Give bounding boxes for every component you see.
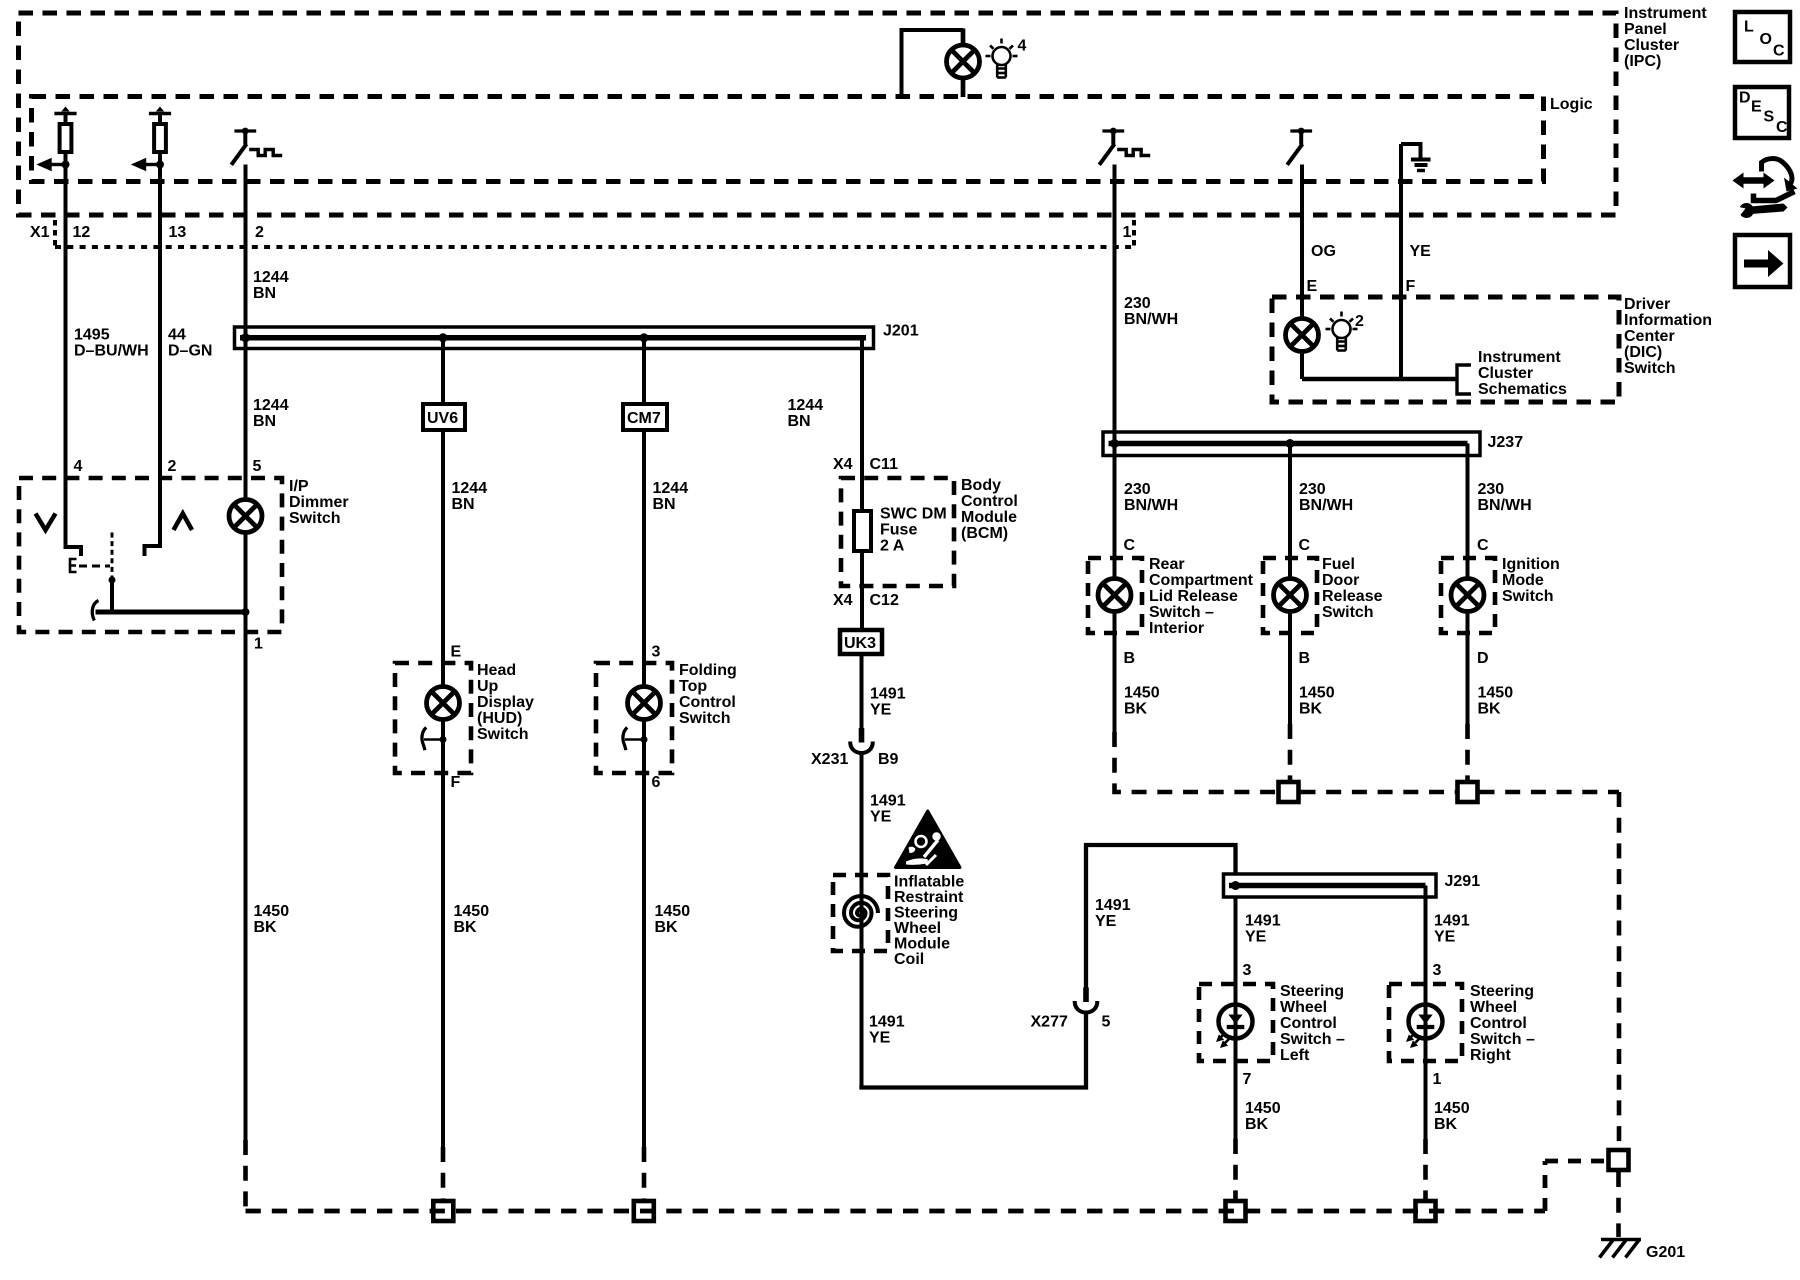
junction dot (HUD)	[440, 736, 447, 743]
svg-text:C: C	[1124, 537, 1136, 554]
folding top lamp	[628, 687, 661, 720]
ground splice square (SWC left)	[1226, 1201, 1246, 1221]
wire (DIC common rail)	[1302, 377, 1457, 382]
Head Up Display (HUD) Switch box	[395, 663, 471, 773]
junction dot (J201/CB1)	[241, 333, 250, 342]
dimmer contact (pin 4 side)	[66, 478, 82, 556]
svg-text:OG: OG	[1311, 243, 1336, 260]
wire (dimmer common rail)	[96, 610, 246, 615]
splice bus J237	[1103, 432, 1480, 456]
Steering Wheel Control Switch Left box	[1199, 984, 1273, 1061]
wire 1491 YE (J291 to SWC right)	[1424, 886, 1428, 1140]
svg-text:F: F	[1406, 278, 1416, 295]
HUD contact line	[424, 738, 443, 741]
svg-text:D: D	[1477, 650, 1489, 667]
chevron up (brighten)	[174, 514, 193, 531]
I/P Dimmer Switch box	[19, 478, 282, 632]
Logic box	[32, 97, 1544, 182]
wire 230 BN/WH (J237 to fuel door switch)	[1288, 444, 1292, 579]
wire (DIC lamp to rail)	[1300, 352, 1304, 380]
switch (DIC feed)	[1287, 128, 1312, 165]
wire 230 BN/WH (J237 to rear lid switch)	[1113, 444, 1117, 579]
common contact hook	[92, 601, 98, 621]
splice square (fuel door return)	[1279, 782, 1299, 802]
ground splice square (UV6 branch)	[433, 1201, 453, 1221]
svg-text:B: B	[1299, 650, 1311, 667]
svg-text:X4: X4	[833, 592, 853, 609]
connector X1 dotted row	[55, 245, 1134, 249]
svg-text:6: 6	[652, 774, 661, 791]
bulb icon 4	[986, 39, 1018, 78]
junction dot (folding top)	[641, 736, 648, 743]
svg-text:5: 5	[1102, 1014, 1111, 1031]
svg-text:12: 12	[73, 224, 91, 241]
splice bus J201	[235, 327, 874, 349]
wire (fuel door lamp to pin B)	[1288, 612, 1292, 725]
wire 230 BN/WH (CB2 to J237)	[1113, 165, 1117, 444]
svg-text:G201: G201	[1646, 1244, 1685, 1261]
splice square (G201 feed)	[1609, 1150, 1629, 1170]
svg-text:L: L	[1744, 19, 1754, 36]
wire YE (ground to DIC pin F)	[1399, 144, 1403, 379]
fuse SWC DM 2A	[854, 511, 871, 551]
svg-text:C: C	[1299, 537, 1311, 554]
svg-text:C: C	[1773, 43, 1785, 60]
svg-text:S: S	[1764, 109, 1775, 126]
wire (lamp to common)	[244, 533, 248, 633]
ground (logic, DIC return)	[1401, 144, 1431, 171]
wire 1244 BN (CB1 to J201)	[244, 165, 248, 338]
ground splice square (SWC right)	[1416, 1201, 1436, 1221]
svg-text:F: F	[451, 774, 461, 791]
ground splice square (CM7 branch)	[634, 1201, 654, 1221]
svg-text:UK3: UK3	[844, 635, 876, 652]
fuel door lamp	[1274, 579, 1307, 612]
HUD lamp	[427, 687, 460, 720]
option box UV6	[423, 404, 465, 430]
svg-text:J201: J201	[883, 323, 919, 340]
wire 1491 YE (X231 to coil)	[860, 753, 864, 1086]
svg-text:O: O	[1760, 31, 1772, 48]
bracket to Instrument Cluster Schematics	[1457, 365, 1471, 394]
wiper E contact	[70, 559, 77, 572]
fuse (left, pin 12 feed)	[36, 107, 76, 172]
svg-text:Logic: Logic	[1550, 96, 1593, 113]
svg-text:2: 2	[1355, 313, 1364, 330]
wire 1450 BK dashed (fuel door)	[1288, 724, 1293, 780]
rear lid lamp	[1098, 579, 1131, 612]
LOC icon box	[1735, 12, 1790, 62]
svg-text:3: 3	[652, 644, 661, 661]
connector X277 pin 5	[1075, 988, 1098, 1013]
Fuel Door Release Switch box	[1263, 558, 1317, 633]
wiper junction dot	[109, 577, 116, 584]
svg-text:C: C	[1776, 119, 1788, 136]
wire 1491 YE (J291 to SWC left)	[1234, 897, 1238, 1139]
junction dot (J201/UV6)	[439, 333, 448, 342]
wire (HUD lamp to pin F)	[441, 720, 445, 774]
svg-text:D: D	[1739, 90, 1751, 107]
wire 44 D-GN	[158, 165, 162, 479]
wire OG (switch to DIC)	[1300, 165, 1304, 319]
junction dot (J201/CM7)	[640, 333, 649, 342]
svg-text:1: 1	[254, 636, 263, 653]
junction dot (lamp/common)	[242, 608, 250, 616]
svg-text:3: 3	[1243, 962, 1252, 979]
LED (SWC right)	[1406, 1005, 1443, 1049]
svg-text:C12: C12	[870, 592, 899, 609]
fuse (second, pin 13 feed)	[131, 107, 171, 172]
Body Control Module (BCM) box	[841, 478, 954, 586]
svg-text:2: 2	[168, 458, 177, 475]
svg-text:13: 13	[169, 224, 187, 241]
Folding Top Control Switch box	[596, 663, 672, 773]
svg-text:3: 3	[1433, 962, 1442, 979]
wire 1450 BK (SWC left ground)	[1233, 1139, 1238, 1199]
ground bus (bottom)	[246, 1209, 1546, 1214]
svg-text:X4: X4	[833, 456, 853, 473]
option box CM7	[623, 404, 667, 430]
svg-text:X231: X231	[811, 751, 848, 768]
svg-text:1: 1	[1123, 224, 1132, 241]
svg-text:2: 2	[255, 224, 264, 241]
wire (folding lamp to pin 6)	[642, 720, 646, 774]
wire (IPC lamp loop)	[902, 30, 964, 97]
wire (J201 to CM7)	[642, 338, 646, 402]
wire 1450 BK dashed (rear lid to return bus)	[1115, 732, 1277, 792]
wire (rear lid lamp to pin B)	[1113, 612, 1117, 733]
svg-text:CM7: CM7	[627, 410, 661, 427]
svg-text:YE: YE	[1410, 243, 1432, 260]
wire (square to G201)	[1616, 1172, 1621, 1237]
Ignition Mode Switch box	[1441, 558, 1495, 633]
svg-text:C: C	[1477, 537, 1489, 554]
wire (lamp top stub)	[961, 29, 966, 46]
svg-text:4: 4	[1018, 38, 1027, 55]
svg-text:E: E	[1307, 278, 1318, 295]
ignition lamp	[1451, 579, 1484, 612]
svg-text:J237: J237	[1488, 434, 1524, 451]
svg-text:UV6: UV6	[427, 410, 458, 427]
bulb icon 2	[1326, 312, 1358, 351]
dimmer contact (pin 2 side)	[145, 478, 161, 556]
wire (ignition lamp to pin D)	[1466, 612, 1470, 725]
SIR warning triangle	[896, 811, 961, 868]
svg-text:FoldingTopControlSwitch: FoldingTopControlSwitch	[679, 662, 737, 727]
wire (fuse to UK3)	[860, 551, 864, 629]
junction dot (J291)	[1231, 881, 1240, 890]
wire 1495 D-BU/WH	[64, 165, 68, 479]
wire 1450 BK (HUD ground)	[441, 773, 445, 1147]
svg-text:E: E	[1751, 99, 1762, 116]
navigation arrows and wrench icon	[1733, 159, 1798, 218]
wire 1491 YE (UK3 to X231)	[860, 654, 864, 729]
wire 1450 BK (SWC right ground)	[1423, 1139, 1428, 1199]
LED (SWC left)	[1216, 1005, 1253, 1049]
option box UK3	[840, 630, 882, 654]
wire 1244 BN (J201 to BCM)	[860, 338, 864, 511]
Instrument Panel Cluster (IPC) box	[19, 13, 1617, 215]
Rear Compartment Lid Release Switch box	[1088, 558, 1142, 633]
ground G201	[1600, 1240, 1642, 1258]
dimmer lamp	[229, 500, 262, 533]
splice bus J291	[1224, 874, 1437, 897]
wire 230 BN/WH (J237 to ignition mode switch)	[1466, 444, 1470, 579]
svg-text:1: 1	[1433, 1071, 1442, 1088]
wire (return bus segments)	[1301, 790, 1456, 795]
circuit breaker CB1	[231, 128, 256, 165]
svg-text:X1: X1	[30, 224, 50, 241]
chevron down (dim)	[36, 514, 56, 531]
DESC icon box	[1735, 87, 1789, 138]
circuit breaker CB2	[1099, 128, 1124, 165]
forward arrow icon box	[1735, 235, 1790, 287]
svg-text:7: 7	[1243, 1071, 1252, 1088]
wire 1244 BN (J201 to dimmer lamp)	[244, 338, 248, 500]
HUD switch contact hook	[422, 728, 426, 751]
wire 1450 BK dashed (ignition)	[1465, 724, 1470, 780]
svg-text:J291: J291	[1445, 873, 1481, 890]
wire 1244 BN (CM7 to folding top switch)	[642, 430, 646, 687]
wire (wiper to common)	[110, 580, 114, 612]
folding top contact hook	[623, 728, 627, 751]
lamp (IPC illumination)	[947, 45, 980, 78]
svg-text:B: B	[1124, 650, 1136, 667]
folding top contact line	[625, 738, 644, 741]
wire (J201 to UV6)	[441, 338, 445, 402]
splice square (ignition return)	[1458, 782, 1478, 802]
junction dot (J237 left)	[1110, 439, 1119, 448]
wire 1244 BN (UV6 to HUD switch)	[441, 430, 445, 687]
Steering Wheel Control Switch Right box	[1389, 984, 1462, 1061]
wire 1450 BK (dimmer ground)	[244, 632, 248, 1140]
wiper actuator dashed link	[79, 565, 110, 568]
connector X231 pin B9	[850, 728, 873, 753]
svg-text:5: 5	[253, 458, 262, 475]
coil spiral	[844, 896, 878, 927]
svg-text:B9: B9	[878, 751, 899, 768]
wire (lamp bottom stub)	[961, 78, 966, 97]
DIC lamp	[1286, 319, 1319, 352]
Driver Information Center (DIC) Switch box	[1272, 297, 1619, 402]
wire 1450 BK (folding top ground)	[642, 773, 646, 1147]
svg-text:4: 4	[74, 458, 83, 475]
wire 1491 YE (X277 to J291)	[1086, 845, 1236, 988]
Inflatable Restraint Steering Wheel Module Coil box	[833, 875, 888, 951]
svg-text:C11: C11	[870, 456, 899, 473]
svg-text:X277: X277	[1031, 1014, 1068, 1031]
junction dot (J237 mid)	[1286, 439, 1295, 448]
svg-text:E: E	[451, 644, 462, 661]
wire 1491 YE (coil to X277 leg)	[862, 1013, 1087, 1088]
